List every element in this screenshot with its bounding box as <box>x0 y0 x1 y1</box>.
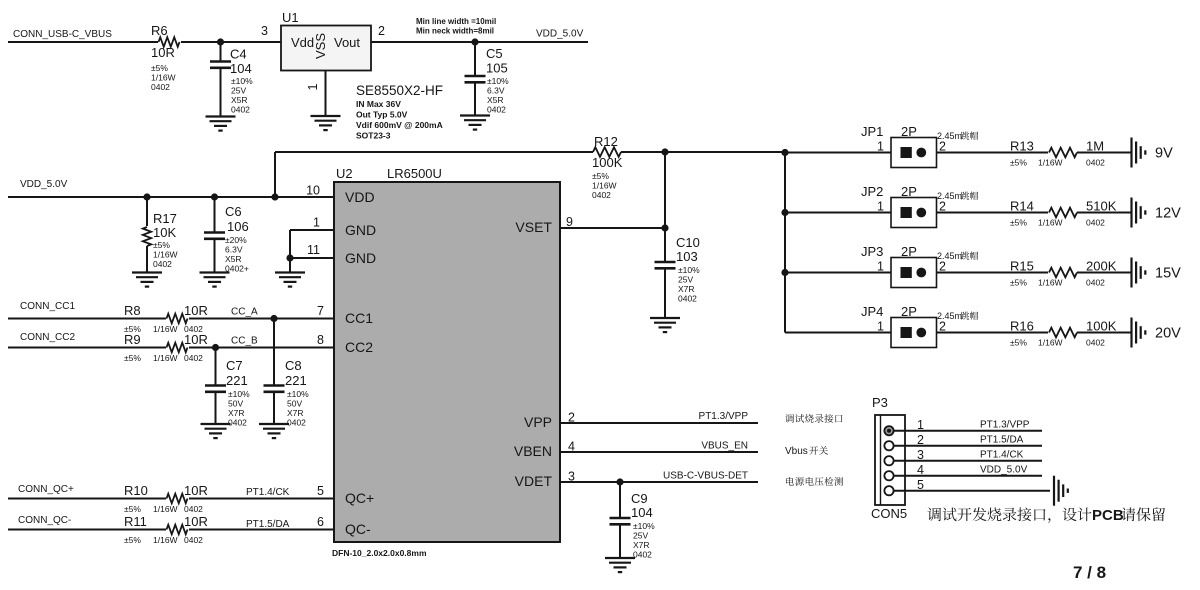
ground right <box>1132 258 1146 288</box>
svg-text:1/16W: 1/16W <box>153 324 178 334</box>
svg-text:C8: C8 <box>285 358 302 373</box>
svg-text:10R: 10R <box>184 483 208 498</box>
resistor R16 <box>1010 319 1117 348</box>
svg-text:1/16W: 1/16W <box>153 353 178 363</box>
svg-text:0402: 0402 <box>1086 338 1105 348</box>
svg-text:1: 1 <box>877 200 884 214</box>
node junction <box>270 315 277 322</box>
pin number 6 <box>317 515 324 529</box>
net label PT1.5/DA <box>246 519 290 530</box>
wire <box>1077 212 1132 214</box>
svg-text:10R: 10R <box>184 514 208 529</box>
ground <box>605 558 635 572</box>
node junction <box>212 344 219 351</box>
wire <box>785 212 891 214</box>
wire VSET <box>560 227 665 229</box>
IC U1 <box>281 10 371 71</box>
svg-text:VBUS_EN: VBUS_EN <box>701 441 748 452</box>
wire <box>189 529 334 531</box>
svg-text:25V: 25V <box>678 275 693 285</box>
svg-text:CON5: CON5 <box>871 506 907 521</box>
net label PT1.5/DA <box>980 435 1024 446</box>
wire <box>785 152 891 154</box>
svg-text:VPP: VPP <box>524 414 552 430</box>
capacitor C9 <box>610 482 656 560</box>
svg-text:50V: 50V <box>228 399 243 409</box>
node junction <box>143 193 150 200</box>
pin number 2 <box>917 433 924 447</box>
svg-text:±5%: ±5% <box>153 240 170 250</box>
wire <box>189 498 334 500</box>
svg-text:R6: R6 <box>151 23 168 38</box>
svg-text:0402: 0402 <box>592 190 611 200</box>
pin number 10 <box>306 184 320 198</box>
svg-text:X5R: X5R <box>231 95 248 105</box>
net label CC_A <box>231 307 258 318</box>
svg-text:0402: 0402 <box>633 550 652 560</box>
wire <box>937 332 1049 334</box>
svg-text:1/16W: 1/16W <box>153 504 178 514</box>
svg-text:2: 2 <box>939 200 946 214</box>
svg-text:±5%: ±5% <box>1010 218 1027 228</box>
svg-text:6.3V: 6.3V <box>487 86 505 96</box>
net label PT1.4/CK <box>246 487 290 498</box>
svg-text:SOT23-3: SOT23-3 <box>356 131 391 141</box>
chinese note <box>785 446 828 457</box>
svg-text:VSS: VSS <box>313 33 328 59</box>
svg-text:PT1.5/DA: PT1.5/DA <box>246 519 290 530</box>
svg-text:PT1.5/DA: PT1.5/DA <box>980 435 1024 446</box>
wire <box>894 475 1042 477</box>
resistor R11 <box>124 514 208 545</box>
voltage label 20V <box>1155 326 1181 342</box>
svg-text:±5%: ±5% <box>124 504 141 514</box>
connector P3 <box>872 395 905 505</box>
svg-text:CC_B: CC_B <box>231 336 258 347</box>
connector pin 2 <box>884 441 893 450</box>
svg-text:PT1.3/VPP: PT1.3/VPP <box>699 411 749 422</box>
ground <box>275 273 305 287</box>
ground right <box>1132 318 1146 348</box>
wire <box>1077 332 1132 334</box>
svg-text:C9: C9 <box>631 491 648 506</box>
svg-text:Out Typ 5.0V: Out Typ 5.0V <box>356 110 408 120</box>
svg-text:C7: C7 <box>226 358 243 373</box>
ground right <box>1054 476 1068 506</box>
svg-text:X7R: X7R <box>287 408 304 418</box>
svg-text:10: 10 <box>306 184 320 198</box>
pin number 3 <box>917 448 924 462</box>
svg-text:1/16W: 1/16W <box>153 250 178 260</box>
svg-text:0402: 0402 <box>1086 278 1105 288</box>
svg-text:CC1: CC1 <box>345 310 373 326</box>
ground right <box>1132 138 1146 168</box>
svg-text:PT1.3/VPP: PT1.3/VPP <box>980 420 1030 431</box>
wire <box>289 258 291 273</box>
svg-text:X7R: X7R <box>678 284 695 294</box>
svg-text:±20%: ±20% <box>225 235 247 245</box>
svg-text:VSET: VSET <box>515 219 552 235</box>
resistor R13 <box>1010 139 1105 168</box>
net label VBUS_EN <box>701 441 748 452</box>
svg-text:U1: U1 <box>282 10 299 25</box>
svg-text:106: 106 <box>227 219 249 234</box>
svg-text:R11: R11 <box>124 514 147 529</box>
svg-text:±10%: ±10% <box>287 389 309 399</box>
svg-text:QC-: QC- <box>345 521 371 537</box>
svg-text:PT1.4/CK: PT1.4/CK <box>246 487 290 498</box>
svg-text:R12: R12 <box>594 134 618 149</box>
node junction <box>661 148 668 155</box>
pin number 2 <box>378 24 385 38</box>
wire <box>785 332 891 334</box>
svg-text:±5%: ±5% <box>124 353 141 363</box>
chinese note <box>786 477 843 486</box>
wire <box>189 318 334 320</box>
svg-text:±5%: ±5% <box>1010 338 1027 348</box>
svg-text:105: 105 <box>486 61 508 76</box>
svg-text:PT1.4/CK: PT1.4/CK <box>980 450 1024 461</box>
resistor R8 <box>124 303 208 334</box>
wire <box>8 529 166 531</box>
ground <box>132 273 162 287</box>
svg-text:Vbus: Vbus <box>785 446 808 457</box>
ground <box>201 424 231 438</box>
svg-text:221: 221 <box>285 373 307 388</box>
svg-text:15V: 15V <box>1155 266 1181 282</box>
svg-text:X7R: X7R <box>228 408 245 418</box>
svg-text:GND: GND <box>345 222 376 238</box>
wire <box>8 347 166 349</box>
svg-text:PCB: PCB <box>1092 507 1124 524</box>
svg-text:±10%: ±10% <box>633 521 655 531</box>
svg-text:SE8550X2-HF: SE8550X2-HF <box>356 83 443 98</box>
svg-text:1/16W: 1/16W <box>153 535 178 545</box>
net label CONN_CC1 <box>20 301 75 312</box>
svg-text:11: 11 <box>307 243 320 257</box>
svg-text:25V: 25V <box>231 86 246 96</box>
net label PT1.4/CK <box>980 450 1024 461</box>
svg-text:±5%: ±5% <box>124 535 141 545</box>
svg-text:R10: R10 <box>124 483 148 498</box>
wire <box>937 152 1049 154</box>
svg-text:IN Max 36V: IN Max 36V <box>356 99 401 109</box>
wire VDET <box>560 481 758 483</box>
svg-text:1: 1 <box>877 140 884 154</box>
capacitor C6 <box>204 197 249 274</box>
svg-text:±10%: ±10% <box>231 76 253 86</box>
svg-text:1: 1 <box>313 216 320 230</box>
svg-text:C6: C6 <box>225 204 242 219</box>
svg-text:JP1: JP1 <box>861 124 883 139</box>
wire <box>785 272 891 274</box>
net label PT1.3/VPP <box>699 411 749 422</box>
pin 1 stub U1 <box>306 71 326 117</box>
svg-text:0402: 0402 <box>153 259 172 269</box>
svg-text:1/16W: 1/16W <box>1038 338 1063 348</box>
resistor R6 <box>151 23 180 92</box>
capacitor C4 <box>210 42 253 117</box>
IC U2 LR6500U <box>334 166 560 542</box>
svg-text:2: 2 <box>939 320 946 334</box>
wire <box>621 151 785 153</box>
svg-text:1/16W: 1/16W <box>1038 158 1063 168</box>
connector label CON5 <box>871 506 907 521</box>
ground right <box>1132 198 1146 228</box>
svg-text:1/16W: 1/16W <box>1038 218 1063 228</box>
wire <box>937 272 1049 274</box>
connector pin 1 <box>884 426 893 435</box>
wire <box>894 490 1050 492</box>
svg-text:±5%: ±5% <box>151 63 168 73</box>
svg-text:100K: 100K <box>1086 319 1117 334</box>
svg-text:10R: 10R <box>151 45 175 60</box>
svg-text:0402: 0402 <box>678 294 697 304</box>
pin number 7 <box>317 304 324 318</box>
svg-text:0402: 0402 <box>151 82 170 92</box>
net label CC_B <box>231 336 258 347</box>
jumper JP3 2P <box>861 244 978 288</box>
jumper JP1 2P <box>861 124 978 168</box>
wire <box>8 41 158 43</box>
svg-text:VDD_5.0V: VDD_5.0V <box>20 179 68 190</box>
svg-text:0402: 0402 <box>487 105 506 115</box>
pin 1 GND wire <box>290 230 334 258</box>
svg-text:8: 8 <box>317 333 324 347</box>
voltage label 15V <box>1155 266 1181 282</box>
wire <box>664 152 666 228</box>
svg-text:CONN_CC2: CONN_CC2 <box>20 332 75 343</box>
wire <box>181 41 281 43</box>
net label CONN_QC- <box>18 515 71 526</box>
svg-text:7: 7 <box>317 304 324 318</box>
pin number 3 <box>261 24 268 38</box>
resistor R12 <box>592 134 623 200</box>
svg-text:2: 2 <box>939 260 946 274</box>
svg-text:0402: 0402 <box>231 105 250 115</box>
svg-text:QC+: QC+ <box>345 490 374 506</box>
svg-text:C5: C5 <box>486 46 503 61</box>
bus wire <box>784 152 786 333</box>
svg-text:GND: GND <box>345 250 376 266</box>
svg-text:0402: 0402 <box>1086 218 1105 228</box>
node junction <box>781 209 788 216</box>
svg-text:±10%: ±10% <box>228 389 250 399</box>
node junction <box>661 224 668 231</box>
svg-text:1/16W: 1/16W <box>592 181 617 191</box>
wire <box>8 498 166 500</box>
net label USB-C-VBUS-DET <box>663 471 748 482</box>
svg-text:200K: 200K <box>1086 259 1117 274</box>
svg-text:±5%: ±5% <box>592 171 609 181</box>
svg-text:0402: 0402 <box>287 418 306 428</box>
wire <box>8 318 166 320</box>
svg-text:±10%: ±10% <box>487 76 509 86</box>
svg-text:1M: 1M <box>1086 139 1104 154</box>
svg-text:0402: 0402 <box>184 353 203 363</box>
pin number 5 <box>317 484 324 498</box>
svg-text:1: 1 <box>877 320 884 334</box>
svg-text:JP4: JP4 <box>861 304 883 319</box>
svg-text:20V: 20V <box>1155 326 1181 342</box>
package label <box>332 548 427 558</box>
capacitor C10 <box>655 228 701 318</box>
svg-text:3: 3 <box>261 24 268 38</box>
svg-text:Min line width =10mil: Min line width =10mil <box>416 17 496 26</box>
svg-text:R15: R15 <box>1010 259 1034 274</box>
voltage label 9V <box>1155 146 1173 162</box>
resistor R9 <box>124 332 208 363</box>
ground <box>259 424 289 438</box>
wire <box>894 445 1042 447</box>
resistor R17 <box>143 197 178 273</box>
svg-text:221: 221 <box>226 373 248 388</box>
ground <box>206 117 236 131</box>
svg-text:104: 104 <box>230 61 252 76</box>
wire <box>371 41 588 43</box>
pin number 5 <box>917 478 924 492</box>
svg-text:X5R: X5R <box>225 254 242 264</box>
svg-text:VBEN: VBEN <box>514 443 552 459</box>
svg-text:5: 5 <box>317 484 324 498</box>
svg-text:9: 9 <box>566 215 573 229</box>
capacitor C8 <box>264 319 310 428</box>
wire <box>275 151 593 153</box>
svg-text:C4: C4 <box>230 47 247 62</box>
svg-text:CONN_QC-: CONN_QC- <box>18 515 71 526</box>
svg-text:JP3: JP3 <box>861 244 883 259</box>
svg-text:12V: 12V <box>1155 206 1181 222</box>
net label CONN_QC+ <box>18 484 74 495</box>
svg-text:103: 103 <box>676 249 698 264</box>
svg-text:±10%: ±10% <box>678 265 700 275</box>
svg-text:±5%: ±5% <box>1010 278 1027 288</box>
svg-text:R8: R8 <box>124 303 141 318</box>
svg-text:CC_A: CC_A <box>231 307 258 318</box>
connector pin 4 <box>884 471 893 480</box>
svg-text:±5%: ±5% <box>1010 158 1027 168</box>
net label PT1.3/VPP <box>980 420 1030 431</box>
pin number 3 <box>568 470 575 484</box>
pin number 1 <box>313 216 320 230</box>
svg-text:Min neck width=8mil: Min neck width=8mil <box>416 27 494 36</box>
svg-text:10R: 10R <box>184 303 208 318</box>
wire VPP <box>560 422 758 424</box>
node junction <box>286 254 293 261</box>
wire <box>274 152 276 197</box>
pin number 4 <box>568 440 575 454</box>
ground <box>460 116 490 130</box>
page number <box>1073 563 1106 582</box>
svg-text:6: 6 <box>317 515 324 529</box>
node junction <box>211 193 218 200</box>
jumper JP4 2P <box>861 304 978 348</box>
svg-text:CONN_QC+: CONN_QC+ <box>18 484 74 495</box>
svg-text:VDD: VDD <box>345 189 375 205</box>
part label SE8550X2-HF <box>356 83 443 141</box>
resistor R15 <box>1010 259 1117 288</box>
svg-text:CC2: CC2 <box>345 339 373 355</box>
svg-text:VDET: VDET <box>515 473 553 489</box>
svg-text:510K: 510K <box>1086 199 1117 214</box>
svg-text:USB-C-VBUS-DET: USB-C-VBUS-DET <box>663 471 748 482</box>
svg-text:100K: 100K <box>592 155 623 170</box>
net label CONN_CC2 <box>20 332 75 343</box>
capacitor C7 <box>205 348 250 428</box>
svg-text:CONN_USB-C_VBUS: CONN_USB-C_VBUS <box>13 29 112 40</box>
svg-text:0402: 0402 <box>228 418 247 428</box>
svg-text:0402: 0402 <box>184 504 203 514</box>
pin 11 GND wire <box>290 257 334 259</box>
pin number 11 <box>307 243 320 257</box>
svg-text:1: 1 <box>306 83 320 90</box>
node junction <box>217 38 224 45</box>
svg-text:2: 2 <box>939 140 946 154</box>
voltage label 12V <box>1155 206 1181 222</box>
svg-text:VDD_5.0V: VDD_5.0V <box>536 29 584 40</box>
pin number 2 <box>568 411 575 425</box>
svg-text:R14: R14 <box>1010 199 1034 214</box>
pin number 9 <box>566 215 573 229</box>
connector pin 5 <box>884 486 893 495</box>
svg-text:1: 1 <box>877 260 884 274</box>
jumper JP2 2P <box>861 184 978 228</box>
resistor R14 <box>1010 199 1117 228</box>
wire <box>1077 152 1132 154</box>
svg-text:R13: R13 <box>1010 139 1034 154</box>
net label VDD_5.0V <box>20 179 68 190</box>
pin number 8 <box>317 333 324 347</box>
wire <box>189 347 334 349</box>
svg-text:X7R: X7R <box>633 540 650 550</box>
ground <box>650 318 680 332</box>
svg-text:Vout: Vout <box>334 35 360 50</box>
ground <box>200 273 230 287</box>
node junction <box>471 38 478 45</box>
svg-text:50V: 50V <box>287 399 302 409</box>
capacitor C5 <box>465 42 510 116</box>
svg-text:7 / 8: 7 / 8 <box>1073 563 1106 582</box>
wire <box>937 212 1049 214</box>
svg-text:0402: 0402 <box>184 535 203 545</box>
node junction <box>781 269 788 276</box>
chinese note keep PCB <box>927 507 1165 524</box>
resistor R10 <box>124 483 208 514</box>
svg-text:10R: 10R <box>184 332 208 347</box>
connector pin 3 <box>884 456 893 465</box>
svg-text:R9: R9 <box>124 332 141 347</box>
wire <box>8 196 334 198</box>
svg-text:6.3V: 6.3V <box>225 245 243 255</box>
svg-text:Vdif 600mV @ 200mA: Vdif 600mV @ 200mA <box>356 120 443 130</box>
svg-text:VDD_5.0V: VDD_5.0V <box>980 465 1028 476</box>
svg-text:25V: 25V <box>633 531 648 541</box>
svg-text:10K: 10K <box>153 225 176 240</box>
svg-text:1/16W: 1/16W <box>1038 278 1063 288</box>
wire <box>894 430 1042 432</box>
wire <box>894 460 1042 462</box>
svg-text:104: 104 <box>631 505 653 520</box>
svg-text:2: 2 <box>378 24 385 38</box>
svg-text:1/16W: 1/16W <box>151 73 176 83</box>
ground <box>311 116 341 130</box>
wire VBEN <box>560 451 758 453</box>
svg-text:CONN_CC1: CONN_CC1 <box>20 301 75 312</box>
node junction <box>616 478 623 485</box>
net label CONN_USB-C_VBUS <box>13 29 112 40</box>
wire <box>1077 272 1132 274</box>
svg-text:JP2: JP2 <box>861 184 883 199</box>
